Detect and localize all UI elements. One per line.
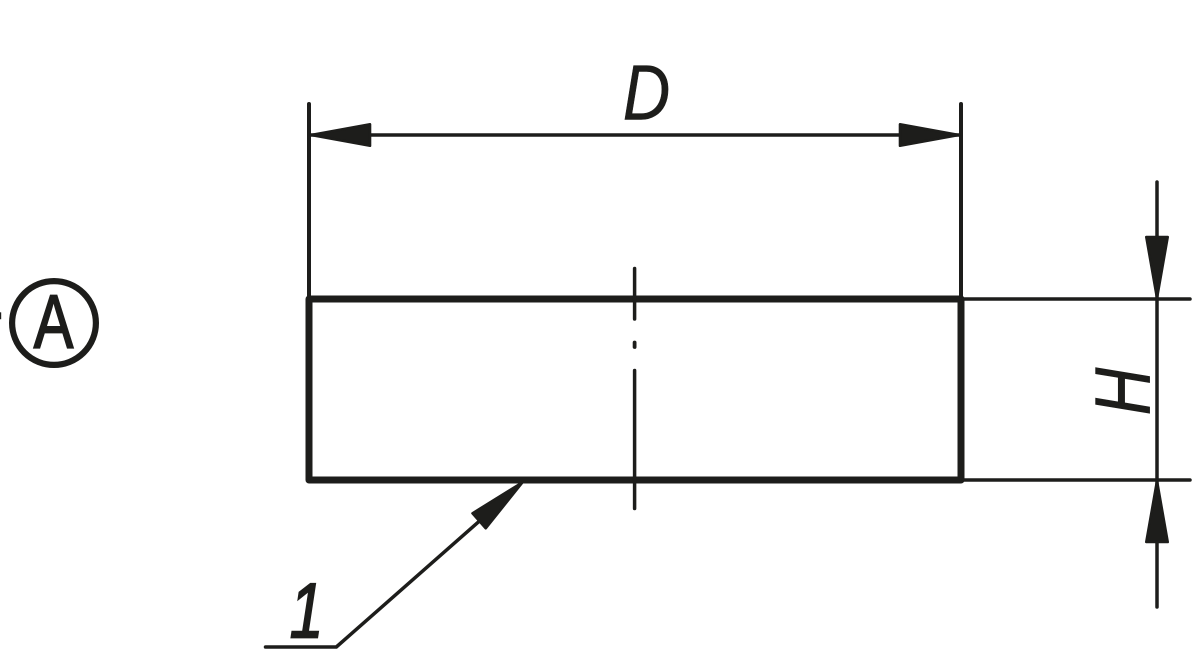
dimension line H [1155,182,1159,607]
svg-text:1: 1 [290,567,324,654]
extension line H top [963,297,1190,301]
arrowhead D right [900,124,959,145]
view label circle A [12,281,96,365]
centerline dash [633,269,637,320]
svg-text:H: H [1080,367,1167,415]
arrowhead D left [311,124,370,145]
body rectangle [309,299,961,480]
extension line right [959,104,963,296]
centerline dot [633,343,637,348]
dimension line D [311,133,959,137]
clipped mark at left edge [0,312,1,319]
centerline dash [633,371,637,509]
svg-text:A: A [34,280,74,365]
leader line for 1 [266,488,518,647]
svg-text:D: D [623,50,670,137]
extension line H bottom [963,478,1190,482]
extension line left [307,104,311,296]
leader arrowhead [473,482,523,528]
arrowhead H bottom [1146,481,1167,542]
arrowhead H top [1146,237,1167,298]
